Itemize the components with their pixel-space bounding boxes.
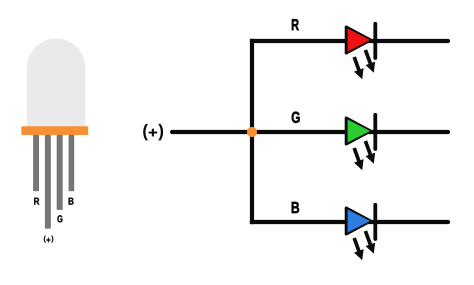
net label R	[292, 19, 299, 30]
LED blue	[346, 205, 375, 260]
pin label G	[57, 215, 62, 222]
wire branch G	[252, 130, 376, 134]
wire G output	[375, 130, 448, 134]
LED green	[346, 115, 375, 171]
net label B	[292, 202, 299, 213]
wire vertical bus	[250, 39, 254, 224]
wire branch R	[250, 39, 376, 43]
supply label (+)	[143, 124, 163, 140]
pin label B	[69, 198, 74, 205]
LED flange rim	[21, 126, 88, 135]
LED pin R	[33, 135, 39, 191]
junction node	[247, 127, 257, 137]
net label G	[292, 112, 300, 123]
LED red	[346, 24, 375, 80]
pin label R	[34, 198, 39, 205]
LED pin B	[69, 135, 75, 191]
wire supply to junction	[172, 130, 252, 134]
wire branch B	[250, 220, 376, 224]
wire B output	[375, 220, 448, 224]
pin label (+)	[44, 236, 54, 243]
LED pin anode (+)	[45, 135, 51, 229]
LED pin G	[57, 135, 63, 210]
RGB LED dome body	[27, 39, 85, 127]
wire R output	[375, 39, 448, 43]
